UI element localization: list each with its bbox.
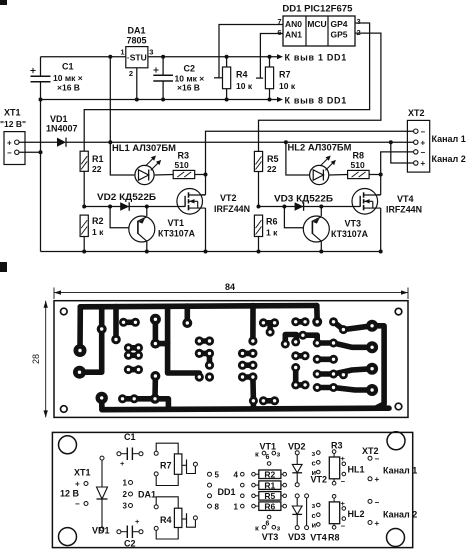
wire R8 to drain node [369,174,381,176]
svg-text:HL1: HL1 [348,465,365,475]
PCB trace to XT1 plus pad [77,307,83,351]
svg-text:VD3 КД522Б: VD3 КД522Б [274,194,334,204]
svg-text:1 к: 1 к [266,228,278,238]
svg-text:R8: R8 [328,533,340,543]
svg-text:R6: R6 [266,217,278,227]
node wire VD3/gate row [259,206,361,208]
svg-text:3: 3 [149,48,153,57]
resistor R5 22 [258,150,260,152]
PCB board outline [54,301,408,418]
svg-text:2: 2 [129,69,133,78]
svg-text:6: 6 [266,520,270,527]
svg-text:VT1: VT1 [260,442,277,452]
placement jumper near VT4 [305,494,309,498]
svg-text:MCU: MCU [307,19,326,29]
svg-text:DD1 PIC12F675: DD1 PIC12F675 [282,4,352,14]
PCB mount holes [61,308,68,315]
svg-text:XT1: XT1 [4,108,21,118]
svg-text:8: 8 [215,503,220,512]
wire HL1 to R3 [155,174,174,177]
svg-text:"12 В": "12 В" [0,119,26,129]
svg-text:VT2: VT2 [220,193,237,203]
svg-text:28: 28 [31,354,41,364]
svg-text:C2: C2 [124,539,136,549]
wire +5V rail to K vyv 1 DD1 [148,56,277,58]
svg-text:3: 3 [123,502,128,511]
svg-text:+: + [135,517,140,526]
svg-text:DA1: DA1 [127,26,145,36]
wire VT4 drain [380,175,382,195]
placement board outline [52,432,412,547]
svg-text:DD1: DD1 [218,487,236,497]
svg-text:−: − [341,522,346,531]
wire DD1 pin2 GP5 to R5 [259,33,381,151]
resistor R1 22 [83,150,85,152]
svg-text:VD3: VD3 [288,532,306,542]
wire XT1 plus to VD1 [19,141,57,143]
placement mount holes [59,436,77,454]
svg-text:+: + [421,138,426,147]
svg-text:C1: C1 [124,432,136,442]
svg-text:+: + [7,138,12,147]
svg-text:1: 1 [234,503,239,512]
svg-text:4: 4 [234,471,239,480]
wire +12V distribution [66,141,413,143]
svg-text:×16 В: ×16 В [57,82,80,92]
svg-text:VD1: VD1 [50,114,68,124]
capacitor C1 [31,75,51,77]
svg-text:R6: R6 [264,501,275,511]
svg-text:+: + [375,475,380,484]
svg-text:R1: R1 [264,480,275,490]
svg-text:−: − [75,500,80,509]
transistor VT3 KT3107A [284,207,303,228]
svg-text:XT2: XT2 [408,108,425,118]
dimension 28 [45,301,47,418]
svg-text:GP4: GP4 [331,19,348,29]
svg-text:VT4: VT4 [397,194,414,204]
wire DD1 pin6 to R7 tap [260,34,283,79]
wire GND rail to K vyv 8 DD1 [41,99,278,101]
svg-text:VD2 КД522Б: VD2 КД522Б [97,192,157,202]
resistor R6 1k [258,214,260,216]
svg-text:+: + [75,480,80,489]
svg-text:и: и [312,521,317,530]
placement VT3 marks [267,515,271,519]
svg-text:+: + [421,159,426,168]
svg-text:510: 510 [351,160,365,170]
svg-text:XT1: XT1 [74,468,91,478]
svg-text:−: − [7,149,12,158]
svg-text:с: с [312,511,316,520]
svg-text:R2: R2 [264,469,275,479]
wire +12V top rail [41,56,126,58]
svg-text:×16 В: ×16 В [177,83,200,93]
wire channel1 minus to XT2 [206,131,414,174]
svg-text:Канал 1: Канал 1 [383,466,417,476]
PCB solder pads [97,324,107,334]
svg-text:Канал 2: Канал 2 [432,154,466,164]
wire channel2 minus to XT2 [381,152,414,175]
svg-text:Канал 2: Канал 2 [383,510,417,520]
resistor R7 10k [269,57,271,67]
svg-text:−: − [341,477,346,486]
svg-text:Канал 1: Канал 1 [432,134,466,144]
transistor VT1 KT3107A [110,207,129,228]
svg-text:R4: R4 [160,515,172,525]
placement R8 [332,495,336,499]
placement VD3 [295,494,299,498]
svg-text:DA1: DA1 [138,490,156,500]
svg-text:7805: 7805 [126,36,146,46]
resistor R2 1k [83,214,85,216]
MOSFET VT2 IRFZ44N [177,189,203,215]
svg-text:з: з [312,449,316,458]
svg-text:VT3: VT3 [345,219,362,229]
svg-text:VT1: VT1 [168,218,185,228]
svg-text:22: 22 [267,164,277,174]
svg-text:VT3: VT3 [262,532,279,542]
svg-text:5: 5 [215,471,220,480]
svg-text:IRFZ44N: IRFZ44N [214,204,250,214]
svg-text:R7: R7 [279,70,291,80]
wire VT4 source to GND [380,208,382,252]
svg-text:к: к [255,450,259,459]
svg-text:VT4: VT4 [310,533,327,543]
node wire VD2/gate row [84,206,185,208]
wire DA1 pin2 to GND [136,68,138,100]
svg-text:VD1: VD1 [92,526,110,536]
svg-text:К выв 1 DD1: К выв 1 DD1 [285,52,347,62]
svg-text:1: 1 [123,479,128,488]
svg-text:R3: R3 [331,441,343,451]
svg-text:AN0: AN0 [285,19,302,29]
wire +12 up link to top rail [109,57,111,143]
svg-text:10 к: 10 к [279,81,296,91]
svg-text:1 к: 1 к [92,227,104,237]
svg-text:HL2: HL2 [348,509,365,519]
svg-text:+: + [120,459,125,468]
PCB trace bottom ground rail [102,408,389,410]
svg-text:R1: R1 [92,154,104,164]
wire VT2 drain [205,175,207,195]
svg-text:з: з [312,501,316,510]
scan artifact top-left corner [0,0,7,5]
placement C2 [117,530,121,534]
svg-text:GP5: GP5 [331,30,348,40]
svg-text:с: с [312,459,316,468]
svg-text:12 В: 12 В [60,489,80,499]
svg-text:КТ3107А: КТ3107А [331,229,369,239]
svg-text:AN1: AN1 [285,30,302,40]
svg-text:R5: R5 [267,154,279,164]
svg-text:К выв 8 DD1: К выв 8 DD1 [285,95,347,105]
MOSFET VT4 IRFZ44N [352,189,378,215]
wire R3 to drain node [195,174,206,176]
svg-text:−: − [375,455,380,464]
placement VD1 [100,456,104,460]
svg-text:IRFZ44N: IRFZ44N [386,204,422,214]
svg-text:6: 6 [266,454,270,461]
wire plus branch to XT2 channel2 plus [391,142,414,163]
svg-text:HL1 АЛ307БМ: HL1 АЛ307БМ [112,143,176,153]
svg-text:R7: R7 [160,461,172,471]
svg-text:C1: C1 [62,62,74,72]
wire C1 branch vertical [40,57,42,76]
wire GND bottom rail [41,251,381,253]
placement DD1 [208,472,212,476]
PCB trace top supply rail [80,306,316,307]
svg-text:1: 1 [120,48,124,57]
svg-text:3: 3 [357,17,361,26]
svg-text:HL2 АЛ307БМ: HL2 АЛ307БМ [288,143,352,153]
dimension 84 [53,288,55,300]
node junction dots left [39,98,43,102]
svg-text:R5: R5 [264,491,275,501]
capacitor C2 [162,57,164,75]
svg-text:·STU: ·STU [127,53,147,63]
resistor R4 10k [226,57,228,67]
scan artifact left margin [0,262,7,272]
svg-text:C2: C2 [184,64,196,74]
svg-text:+: + [375,519,380,528]
wire XT1 minus to GND vertical [19,151,41,153]
svg-text:−: − [375,498,380,507]
svg-text:1N4007: 1N4007 [46,124,78,134]
svg-text:−: − [421,148,426,157]
svg-text:10 к: 10 к [236,81,253,91]
placement R2 R1 R5 R6 [241,472,245,476]
svg-text:КТ3107А: КТ3107А [158,229,196,239]
svg-text:VD2: VD2 [288,442,306,452]
svg-text:VT2: VT2 [311,475,328,485]
svg-text:510: 510 [175,160,189,170]
wire DD1 pin7 to R4 tap [219,25,283,78]
svg-text:R4: R4 [236,70,248,80]
svg-text:з: з [277,450,281,459]
svg-text:2: 2 [123,490,128,499]
svg-text:R2: R2 [92,216,104,226]
wire HL2 to R8 [329,174,347,177]
svg-text:к: к [255,524,259,533]
wire VT2 source to GND [205,208,207,252]
PCB trace right vertical bus [372,326,384,408]
svg-text:22: 22 [92,164,102,174]
svg-text:84: 84 [225,282,235,292]
wire DD1 pin3 GP4 to R1 [84,23,369,151]
svg-text:−: − [421,127,426,136]
svg-text:6: 6 [277,28,281,37]
